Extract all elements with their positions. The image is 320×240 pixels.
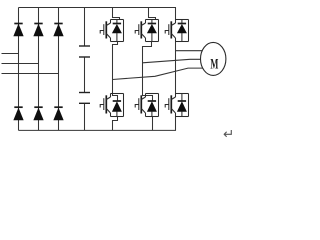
svg-text:M: M bbox=[210, 57, 218, 73]
IGBT U1 feed wire with jog bbox=[113, 8, 120, 20]
rectifier leg 3 wire bbox=[58, 8, 60, 131]
AC input line 1 bbox=[2, 53, 19, 55]
DC link capacitor C1 (upper) bbox=[79, 8, 90, 93]
rectifier diode D6 (bottom) bbox=[54, 107, 63, 120]
IGBT U1 (top row, phase A) bbox=[100, 20, 123, 42]
phase A node wire (U1 out, jog, down, jog into B1) bbox=[113, 42, 118, 101]
DC link capacitor C2 (lower) bbox=[79, 93, 90, 131]
motor line V (from phase B) bbox=[143, 59, 202, 63]
phase B node wire (U2 out, jog left, down, jog into B2) bbox=[143, 42, 153, 101]
phase C node wire bbox=[175, 42, 177, 94]
rectifier leg 2 wire bbox=[38, 8, 40, 131]
IGBT U3 (top row, phase C) bbox=[165, 20, 188, 42]
AC input line 3 bbox=[2, 73, 59, 75]
IGBT U2 feed wire with jog bbox=[149, 8, 156, 20]
IGBT B1 (bottom row, phase A) bbox=[100, 94, 123, 117]
rectifier diode D5 (bottom) bbox=[34, 107, 43, 120]
motor M circle bbox=[201, 42, 226, 75]
bottom DC rail bbox=[19, 117, 176, 131]
rectifier diode D2 (top) bbox=[34, 24, 43, 37]
IGBT B2 (bottom row, phase B) bbox=[135, 94, 158, 117]
IGBT B1 output wire with jog bbox=[113, 117, 118, 131]
AC input line 2 bbox=[2, 63, 39, 65]
IGBT U2 (top row, phase B) bbox=[135, 20, 158, 42]
svg-text:↵: ↵ bbox=[223, 126, 234, 141]
rectifier diode D3 (top) bbox=[54, 24, 63, 37]
top DC rail bbox=[19, 8, 176, 20]
motor line W (from phase A) bbox=[113, 68, 204, 79]
IGBT B3 (bottom row, phase C) bbox=[165, 94, 188, 117]
motor line U (from phase C) bbox=[176, 50, 203, 52]
rectifier diode D4 (bottom) bbox=[14, 107, 23, 120]
IGBT B2 output wire bbox=[152, 117, 154, 131]
rectifier diode D1 (top) bbox=[14, 24, 23, 37]
rectifier leg 1 wire bbox=[18, 8, 20, 131]
